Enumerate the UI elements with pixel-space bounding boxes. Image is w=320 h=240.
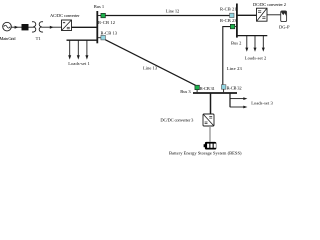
wire breaker to transformer (29, 26, 35, 28)
DC/DC converter 2 (257, 8, 268, 21)
Line 23 wire (223, 27, 231, 85)
svg-text:R-CB 31: R-CB 31 (200, 86, 215, 91)
wire grid to breaker with arrow (11, 26, 21, 29)
wire Bus2 to converter2 (237, 14, 257, 16)
svg-text:R-CB 13: R-CB 13 (101, 31, 118, 36)
svg-text:Main Grid: Main Grid (0, 36, 16, 41)
breaker black square (22, 24, 29, 30)
wire transformer to converter with arrow (41, 26, 61, 29)
Bus 3 (193, 92, 237, 94)
svg-text:Bus 2: Bus 2 (231, 40, 241, 45)
Line 12 wire (105, 15, 229, 17)
DC/DC converter 3 (203, 114, 214, 126)
svg-text:R-CB 21: R-CB 21 (220, 7, 237, 12)
R-CB 21 breaker (cyan) (230, 13, 234, 17)
loads-set 1 feeder (67, 40, 98, 59)
R-CB 13 breaker (cyan) (97, 35, 105, 40)
R-CB 23 breaker (green) (230, 24, 237, 29)
svg-text:Bus 1: Bus 1 (94, 4, 104, 9)
R-CB 32 breaker (cyan) (221, 85, 226, 93)
svg-text:DG-PV: DG-PV (279, 25, 290, 30)
wire converter3 to battery (209, 126, 211, 142)
svg-text:Line 12: Line 12 (166, 9, 180, 14)
transformer T1 (32, 22, 43, 32)
Bus 1 (96, 11, 98, 43)
loads-set 3 feeder (230, 94, 247, 109)
svg-text:AC/DC converter: AC/DC converter (50, 13, 80, 18)
battery BESS icon (204, 142, 217, 150)
svg-text:R-CB 23: R-CB 23 (220, 18, 237, 23)
R-CB 12 breaker (green) (97, 13, 105, 17)
svg-text:Line 23: Line 23 (227, 66, 243, 71)
wire converter1 to Bus 1 (72, 26, 98, 28)
svg-text:R-CB 32: R-CB 32 (227, 86, 242, 91)
R-CB 31 breaker (green) (195, 85, 200, 92)
svg-text:Line 13: Line 13 (143, 65, 158, 70)
svg-text:DC/DC converter 3: DC/DC converter 3 (160, 117, 194, 122)
DG-PV unit (281, 11, 287, 22)
Bus 2 (236, 4, 238, 38)
svg-text:T1: T1 (36, 36, 41, 41)
svg-text:Bus 3: Bus 3 (180, 89, 191, 94)
svg-text:Loads-set 3: Loads-set 3 (251, 101, 273, 106)
svg-text:Loads-set 2: Loads-set 2 (245, 55, 266, 60)
AC/DC converter U1 (62, 20, 72, 31)
loads-set 2 feeder (237, 36, 267, 52)
svg-text:DC/DC converter 2: DC/DC converter 2 (253, 2, 286, 7)
wire Bus3 to converter3 (210, 94, 212, 115)
svg-text:Battery Energy Storage System: Battery Energy Storage System (BESS) (169, 150, 242, 155)
Line 13 wire (diagonal) (105, 40, 195, 86)
svg-text:R-CB 12: R-CB 12 (98, 20, 115, 25)
svg-text:Loads-set 1: Loads-set 1 (68, 61, 90, 66)
AC source G (Main Grid) (3, 22, 12, 31)
wire converter2 to DG-PV (267, 14, 281, 16)
